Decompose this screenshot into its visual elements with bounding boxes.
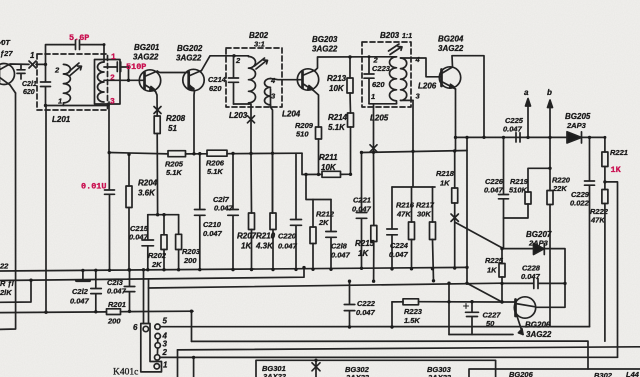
wire junction to AGC riser <box>605 182 618 357</box>
coil L206 secondary <box>401 58 407 100</box>
capacitor C211 <box>17 64 25 79</box>
svg-text:3:1: 3:1 <box>254 40 265 49</box>
capacitor C220 <box>291 153 302 269</box>
capacitor C217 <box>228 154 239 270</box>
left edge stub wire <box>0 280 31 302</box>
wire detector line y137 <box>456 136 605 138</box>
wire x467 from detector line to L3 <box>466 137 468 283</box>
capacitor C219 0.01U <box>105 153 115 271</box>
switch contact 3 <box>155 343 160 348</box>
coil L203 primary <box>249 56 256 104</box>
svg-text:22K: 22K <box>552 184 567 193</box>
wire from contact5 L5 <box>160 326 589 328</box>
wire BG202 emitter down to rail <box>193 91 196 154</box>
capacitor C229 <box>585 137 595 326</box>
wire into L201 tank <box>36 63 46 65</box>
resistor R214 <box>348 113 354 127</box>
svg-text:C220: C220 <box>278 232 297 241</box>
wire riser from L3 to emitter ground wire <box>448 283 450 334</box>
svg-text:R216: R216 <box>396 201 415 210</box>
svg-text:0.047: 0.047 <box>503 125 523 134</box>
resistor R218 <box>452 151 458 268</box>
wire R214 down to R211 wire <box>350 127 352 174</box>
wire L4 with R201 <box>0 311 193 312</box>
transistor BG206 <box>514 297 535 335</box>
svg-text:L201: L201 <box>52 115 71 124</box>
wire R221 to junction <box>604 167 606 190</box>
capacitor C215 <box>142 215 154 270</box>
svg-text:K401c: K401c <box>113 368 138 377</box>
svg-text:5.1K: 5.1K <box>328 123 346 132</box>
svg-text:R218: R218 <box>436 169 455 178</box>
wire BG203 collector to B203 <box>316 57 369 70</box>
resistor R201 <box>107 309 121 315</box>
svg-text:R202: R202 <box>148 251 167 260</box>
svg-text:⁄0T: ⁄0T <box>0 38 11 47</box>
svg-text:0.047: 0.047 <box>352 205 372 214</box>
svg-text:C222: C222 <box>357 299 376 308</box>
svg-text:0.022: 0.022 <box>570 199 590 208</box>
svg-text:L206: L206 <box>418 82 437 91</box>
svg-text:1: 1 <box>30 51 35 60</box>
resistor R221 <box>602 152 608 167</box>
adjustable core arrow of B202 <box>255 58 268 69</box>
svg-text:0.047: 0.047 <box>70 297 90 306</box>
X mark below B202 <box>248 116 255 123</box>
resistor R210 <box>270 153 276 269</box>
svg-text:1K: 1K <box>358 249 369 258</box>
svg-text:C224: C224 <box>390 241 409 250</box>
svg-text:22: 22 <box>0 262 9 271</box>
svg-text:L204: L204 <box>282 110 301 119</box>
wire top inside B202 <box>234 55 249 58</box>
svg-text:1: 1 <box>371 92 375 101</box>
svg-text:3: 3 <box>110 98 115 107</box>
right box <box>469 369 640 377</box>
wire R222 down to AGC line <box>604 204 606 342</box>
resistor R222 <box>602 190 608 204</box>
svg-text:1K: 1K <box>440 179 450 188</box>
svg-text:3AG22: 3AG22 <box>176 54 202 63</box>
capacitor C227 electrolytic <box>464 302 479 335</box>
svg-text:BG204: BG204 <box>438 35 464 44</box>
svg-text:0.047: 0.047 <box>356 308 376 317</box>
riser B bus2 to switch <box>148 279 150 323</box>
svg-text:3AG22: 3AG22 <box>526 330 552 339</box>
transistor BG201 <box>139 70 160 92</box>
capacitor C210 <box>195 154 206 270</box>
wire from contact2 to AGC L8 <box>160 356 618 358</box>
switch contact 1 <box>154 364 159 369</box>
svg-text:R204: R204 <box>138 179 158 188</box>
wire bottom of B202 <box>234 104 252 107</box>
capacitor C212 <box>91 270 102 312</box>
transistor BG202 <box>183 69 204 90</box>
svg-text:R213: R213 <box>327 74 347 83</box>
svg-text:5.1K: 5.1K <box>207 167 223 176</box>
svg-text:C2l1: C2l1 <box>22 81 37 88</box>
svg-text:0.01U: 0.01U <box>81 182 107 192</box>
capacitor C224 <box>387 187 398 269</box>
svg-text:1: 1 <box>163 361 168 370</box>
svg-text:4.3K: 4.3K <box>255 242 274 251</box>
bus2 <box>0 268 304 281</box>
resistor R215 <box>371 152 377 281</box>
dashed box B203 <box>362 42 411 107</box>
svg-text:L203: L203 <box>229 111 248 120</box>
wire L6 <box>192 341 589 369</box>
wire emitter left transistor down to bottom-left corner <box>0 93 16 329</box>
svg-text:5: 5 <box>163 317 168 326</box>
wire R220 down to AGC2 line <box>549 205 551 327</box>
wire b line down to R220 <box>549 137 551 190</box>
wire BG201 emitter down <box>156 92 158 117</box>
svg-text:C214: C214 <box>208 75 227 84</box>
test point arrow b <box>548 100 553 137</box>
capacitor C221 <box>356 153 367 269</box>
resistor R205 <box>168 151 186 157</box>
svg-text:R214: R214 <box>328 113 348 122</box>
wire L204 pin4 to BG203 base <box>271 79 303 80</box>
capacitor C225 <box>516 133 520 142</box>
wire BG202 collector to B202 <box>202 56 235 71</box>
svg-text:R221: R221 <box>610 148 628 157</box>
bus1 main ground bus <box>0 267 467 271</box>
svg-text:0.047: 0.047 <box>521 272 541 281</box>
svg-text:1: 1 <box>111 53 116 62</box>
svg-text:1K: 1K <box>241 242 252 251</box>
wire L7 <box>178 347 640 350</box>
bottom box BG301 <box>256 360 496 377</box>
riser from L4 down to L6 <box>191 311 193 341</box>
svg-text:R215: R215 <box>355 239 375 248</box>
svg-text:3AX22: 3AX22 <box>346 373 370 377</box>
svg-text:1: 1 <box>58 97 62 106</box>
svg-text:BG205: BG205 <box>565 112 591 121</box>
svg-text:a: a <box>524 88 529 97</box>
svg-text:51: 51 <box>168 124 177 133</box>
svg-text:0.047: 0.047 <box>389 250 409 259</box>
capacitor 510P coupling <box>104 62 129 80</box>
resistor R212 <box>310 200 316 270</box>
wire between R213 and R214 <box>349 93 352 113</box>
wire bottom inside B203 <box>369 104 397 107</box>
svg-text:2: 2 <box>235 56 241 65</box>
svg-text:C210: C210 <box>203 220 222 229</box>
wire riser to R216 R217 top wire <box>392 100 435 187</box>
resistor R225 <box>499 249 505 302</box>
capacitor C228 <box>502 279 565 289</box>
svg-text:10K: 10K <box>329 84 345 93</box>
svg-text:4: 4 <box>270 76 276 85</box>
wire diode around to BG206 collector <box>536 249 565 308</box>
diode BG205 <box>567 132 582 143</box>
supply rail A y154 <box>109 153 302 154</box>
svg-text:0.047: 0.047 <box>278 242 298 251</box>
svg-text:C223: C223 <box>372 64 391 73</box>
svg-text:0.047: 0.047 <box>331 251 351 260</box>
capacitor C214 <box>229 56 239 104</box>
svg-text:BG203: BG203 <box>312 35 338 44</box>
diagonal D2 to BG206 base <box>467 283 502 302</box>
svg-text:5.6P: 5.6P <box>69 33 89 43</box>
svg-text:510K: 510K <box>509 186 528 195</box>
transistor Q (input stage, cut at left edge) <box>0 64 29 94</box>
svg-text:1K: 1K <box>611 165 622 175</box>
svg-text:R210: R210 <box>256 232 276 241</box>
svg-text:3.6K: 3.6K <box>138 189 156 198</box>
svg-text:3AG22: 3AG22 <box>133 53 159 62</box>
wire L204 pin3 down <box>271 89 273 213</box>
chain link contacts 4-3-2 <box>156 339 158 355</box>
switch K401c body <box>141 324 162 372</box>
svg-text:47K: 47K <box>590 216 605 225</box>
svg-text:0.047: 0.047 <box>203 229 223 238</box>
wire BG206 emitter to ground wire <box>449 334 513 336</box>
svg-text:4: 4 <box>415 55 421 64</box>
svg-text:R211: R211 <box>319 153 338 162</box>
svg-text:3AX22: 3AX22 <box>263 372 287 377</box>
wire BG206 base <box>502 301 516 303</box>
svg-text:R203: R203 <box>182 247 201 256</box>
wire R209 down to R211 wire <box>318 139 320 174</box>
capacitor 5.6P <box>46 40 105 64</box>
solid box around L202 secondary <box>95 60 121 105</box>
svg-text:1K: 1K <box>487 266 497 275</box>
wire BG201 collector to BG202 base <box>158 72 189 73</box>
wire top inside B203 <box>369 56 397 58</box>
resistor R204 <box>126 154 132 269</box>
wire bottom of tank <box>46 105 110 107</box>
svg-text:3AX22: 3AX22 <box>428 373 452 377</box>
svg-text:R217: R217 <box>416 201 435 210</box>
wire diode to R221 <box>604 137 606 152</box>
svg-text:b: b <box>547 88 552 97</box>
X mark on emitter wire <box>154 107 161 114</box>
resistor R202 <box>161 215 167 270</box>
wire R208 to emitter junction <box>156 134 158 215</box>
svg-text:47K: 47K <box>396 210 411 219</box>
wire BG204 emitter down <box>455 89 457 151</box>
svg-text:ƒ27: ƒ27 <box>0 49 13 58</box>
bus3 L3 <box>149 283 503 288</box>
svg-text:R207: R207 <box>237 232 257 241</box>
AVC rail y151 <box>362 151 468 153</box>
svg-text:R223: R223 <box>404 307 423 316</box>
svg-text:B203: B203 <box>380 31 400 40</box>
switch contact 6 <box>143 326 148 331</box>
riser L7 down left <box>177 350 179 377</box>
X mark on R218 line <box>451 214 458 221</box>
resistor R208 <box>154 116 160 134</box>
switch contact 4 <box>155 333 160 338</box>
capacitor C218 <box>326 200 337 270</box>
resistor R219 <box>504 168 551 218</box>
resistor R207 <box>249 153 255 269</box>
svg-text:200: 200 <box>183 256 197 265</box>
svg-text:1.5K: 1.5K <box>404 316 420 325</box>
switch contact 2 <box>155 355 160 360</box>
resistor R220 <box>547 191 553 205</box>
svg-text:B302: B302 <box>594 371 613 377</box>
svg-text:R201: R201 <box>108 300 126 309</box>
svg-text:2K: 2K <box>151 260 162 269</box>
svg-text:C2l2: C2l2 <box>72 287 89 296</box>
svg-text:2lK: 2lK <box>0 288 12 297</box>
switch contact 5 <box>155 324 160 329</box>
diagonal D1 to diode network <box>456 223 504 249</box>
transistor BG203 <box>297 69 318 91</box>
resistor R209 <box>316 127 322 139</box>
svg-text:R225: R225 <box>485 256 504 265</box>
svg-text:0.047: 0.047 <box>107 287 127 296</box>
X mark on input wire <box>29 61 36 68</box>
coil L205 primary <box>390 57 397 104</box>
test point arrow a <box>526 99 531 138</box>
svg-text:2AP3: 2AP3 <box>528 239 549 248</box>
resistor R213 <box>347 57 353 93</box>
long vertical from L201 tank bottom to L4 <box>45 106 47 313</box>
wire L206 pin4 to BG204 base <box>401 58 442 77</box>
riser L202 pin3 to rail <box>108 102 110 152</box>
tank capacitor of L201 <box>41 64 51 105</box>
sub-wire y199 for R212 C218 <box>306 174 331 199</box>
resistor R203 <box>176 215 182 270</box>
wire BG204 collector loop <box>452 56 484 138</box>
coil L204 secondary <box>265 79 271 108</box>
X diode lead into box <box>312 360 320 377</box>
svg-text:10K: 10K <box>321 163 337 172</box>
riser A bus1 to switch <box>143 270 145 324</box>
wire L205 bottom down to AVC rail <box>373 107 375 152</box>
svg-text:C221: C221 <box>353 196 371 205</box>
adjustable core arrow of L201 <box>69 63 82 76</box>
riser from AGC L8 down <box>193 357 195 377</box>
wire rail corner down to R211 wire <box>302 153 346 174</box>
X mark below B203 <box>370 145 377 152</box>
resistor R211 <box>322 171 341 177</box>
svg-text:5.1K: 5.1K <box>166 168 182 177</box>
wire L203 bottom down with X to rail <box>250 107 252 154</box>
transistor BG204 <box>439 67 460 89</box>
svg-text:620: 620 <box>372 80 385 89</box>
svg-text:3AG22: 3AG22 <box>438 44 464 53</box>
capacitor C222 <box>344 281 355 327</box>
wire L206 pin3 <box>401 99 414 101</box>
svg-text:BG202: BG202 <box>177 44 203 53</box>
svg-text:510P: 510P <box>126 62 146 72</box>
wire riser R223 to L5 <box>391 302 393 327</box>
svg-text:C2l8: C2l8 <box>331 242 348 251</box>
svg-text:2AP3: 2AP3 <box>566 121 587 130</box>
svg-text:BG206: BG206 <box>525 321 551 330</box>
capacitor C213 <box>124 270 135 311</box>
resistor R216 <box>409 187 415 269</box>
resistor R206 <box>207 150 227 156</box>
svg-text:620: 620 <box>23 89 35 96</box>
dashed box B202 <box>226 48 282 107</box>
svg-text:510: 510 <box>296 130 309 139</box>
dashed box B201/L201 <box>37 54 108 110</box>
wire L202 tap to BG201 base <box>104 79 145 81</box>
svg-text:2: 2 <box>110 74 115 83</box>
adjustable core arrow of B203 <box>389 44 403 55</box>
svg-text:30K: 30K <box>417 210 431 219</box>
svg-text:620: 620 <box>209 84 222 93</box>
coil L201 primary <box>63 64 70 105</box>
wire R211 wire to R214 line junction <box>346 173 351 175</box>
svg-text:3AG22: 3AG22 <box>312 45 338 54</box>
svg-text:BG201: BG201 <box>134 43 160 52</box>
svg-text:BG206: BG206 <box>509 370 534 377</box>
capacitor C226 <box>499 137 509 248</box>
wire to diode BG207 <box>502 248 534 250</box>
svg-text:0.047: 0.047 <box>129 233 149 242</box>
svg-text:2K: 2K <box>318 218 329 227</box>
capacitor C223 <box>364 57 374 104</box>
svg-text:R ƒl: R ƒl <box>0 279 15 288</box>
resistor R223 <box>392 299 502 305</box>
svg-text:L44: L44 <box>626 370 640 377</box>
svg-text:200: 200 <box>107 317 121 326</box>
wire BG203 emitter down <box>314 91 319 128</box>
svg-text:1:1: 1:1 <box>402 33 412 40</box>
emitter sub-wire y215 <box>148 214 179 216</box>
svg-text:2: 2 <box>162 348 168 357</box>
diode BG207 <box>534 244 545 255</box>
ground symbol <box>77 270 90 280</box>
svg-text:0.047: 0.047 <box>214 204 234 213</box>
svg-text:0.047: 0.047 <box>484 186 504 195</box>
resistor R217 <box>430 187 436 281</box>
svg-text:2: 2 <box>54 66 60 75</box>
coil L202 secondary <box>97 62 104 102</box>
svg-text:R208: R208 <box>166 114 186 123</box>
svg-text:6: 6 <box>133 323 138 332</box>
